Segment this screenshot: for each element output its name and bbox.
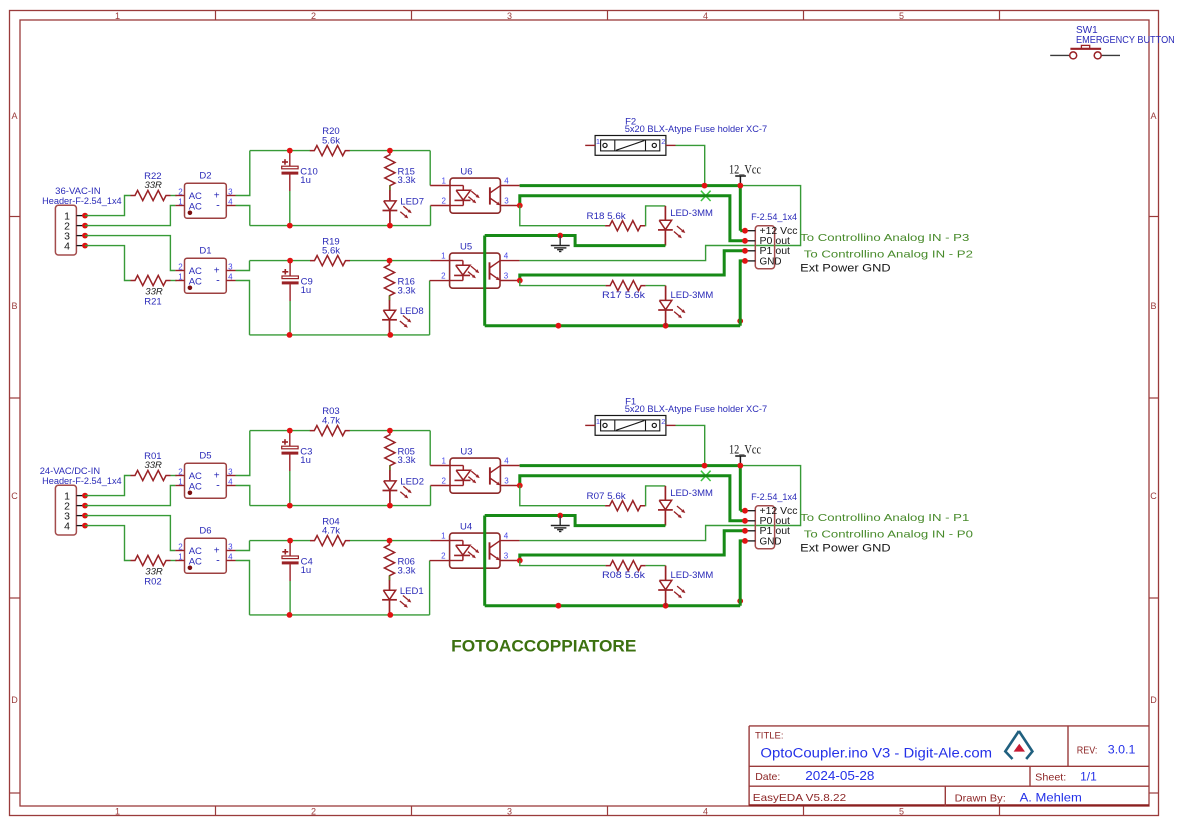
svg-text:GND: GND — [760, 536, 782, 547]
svg-text:3.3k: 3.3k — [398, 175, 416, 186]
svg-text:R07 5.6k: R07 5.6k — [587, 491, 626, 502]
svg-text:EasyEDA V5.8.22: EasyEDA V5.8.22 — [753, 792, 846, 804]
svg-text:LED8: LED8 — [400, 306, 424, 317]
svg-text:LED-3MM: LED-3MM — [671, 570, 714, 581]
svg-text:4.7k: 4.7k — [322, 415, 340, 426]
svg-text:FOTOACCOPPIATORE: FOTOACCOPPIATORE — [451, 636, 636, 655]
svg-text:AC: AC — [189, 266, 202, 277]
svg-text:3.3k: 3.3k — [398, 285, 416, 296]
svg-text:2024-05-28: 2024-05-28 — [805, 769, 874, 783]
svg-text:1: 1 — [442, 457, 447, 466]
svg-text:1: 1 — [178, 552, 183, 561]
svg-text:U4: U4 — [460, 522, 472, 533]
svg-text:5x20 BLX-Atype Fuse holder XC-: 5x20 BLX-Atype Fuse holder XC-7 — [625, 124, 768, 135]
svg-text:3: 3 — [228, 262, 233, 271]
svg-text:A: A — [11, 111, 17, 121]
svg-text:D2: D2 — [199, 171, 211, 182]
svg-text:LED1: LED1 — [400, 586, 424, 597]
svg-text:REV:: REV: — [1077, 744, 1098, 756]
svg-text:4: 4 — [64, 520, 70, 532]
svg-text:U5: U5 — [460, 242, 472, 253]
svg-text:3: 3 — [228, 542, 233, 551]
svg-text:-: - — [216, 480, 220, 492]
svg-text:2: 2 — [661, 137, 665, 146]
svg-text:5.6k: 5.6k — [322, 246, 340, 257]
svg-text:Header-F-2.54_1x4: Header-F-2.54_1x4 — [42, 476, 122, 486]
svg-text:D1: D1 — [199, 246, 211, 257]
svg-text:B: B — [1150, 301, 1156, 311]
svg-text:4.7k: 4.7k — [322, 526, 340, 537]
svg-text:1: 1 — [596, 417, 600, 426]
svg-text:-: - — [216, 275, 220, 287]
svg-text:4: 4 — [504, 177, 509, 186]
svg-text:Ext Power GND: Ext Power GND — [800, 543, 891, 555]
svg-text:1: 1 — [178, 477, 183, 486]
svg-text:D5: D5 — [199, 451, 211, 462]
svg-text:3: 3 — [507, 11, 512, 21]
svg-text:12_Vcc: 12_Vcc — [729, 163, 761, 177]
svg-text:1u: 1u — [301, 285, 312, 296]
svg-text:4: 4 — [228, 552, 233, 561]
svg-text:U6: U6 — [460, 167, 472, 178]
svg-text:LED-3MM: LED-3MM — [670, 208, 713, 219]
svg-text:1: 1 — [441, 532, 446, 541]
svg-text:AC: AC — [189, 471, 202, 482]
svg-text:2: 2 — [441, 552, 446, 561]
svg-text:1u: 1u — [300, 455, 311, 466]
svg-text:2: 2 — [442, 197, 447, 206]
svg-text:3.3k: 3.3k — [398, 455, 416, 466]
svg-text:4: 4 — [228, 197, 233, 206]
svg-text:LED-3MM: LED-3MM — [670, 488, 713, 499]
svg-text:LED7: LED7 — [400, 196, 424, 207]
svg-text:To Controllino Analog IN - P0: To Controllino Analog IN - P0 — [804, 529, 973, 541]
svg-text:24-VAC/DC-IN: 24-VAC/DC-IN — [40, 466, 100, 476]
svg-text:Sheet:: Sheet: — [1035, 771, 1066, 783]
svg-text:1: 1 — [178, 272, 183, 281]
svg-text:1u: 1u — [300, 175, 311, 186]
svg-text:3.3k: 3.3k — [398, 565, 416, 576]
svg-text:C: C — [11, 491, 18, 501]
svg-text:4: 4 — [228, 272, 233, 281]
svg-text:3: 3 — [507, 806, 512, 816]
svg-text:To Controllino Analog IN - P1: To Controllino Analog IN - P1 — [800, 512, 969, 524]
svg-text:-: - — [216, 555, 220, 567]
svg-text:2: 2 — [441, 272, 446, 281]
svg-text:OptoCoupler.ino V3 - Digit-Ale: OptoCoupler.ino V3 - Digit-Ale.com — [760, 745, 992, 760]
svg-text:C: C — [1150, 491, 1157, 501]
svg-text:To Controllino Analog IN - P2: To Controllino Analog IN - P2 — [804, 249, 973, 261]
svg-text:2: 2 — [178, 467, 183, 476]
svg-text:33R: 33R — [144, 180, 162, 191]
svg-text:Header-F-2.54_1x4: Header-F-2.54_1x4 — [42, 196, 122, 206]
svg-text:4: 4 — [703, 806, 708, 816]
svg-text:Ext Power GND: Ext Power GND — [800, 263, 891, 275]
svg-text:2: 2 — [442, 477, 447, 486]
svg-text:1: 1 — [115, 806, 120, 816]
svg-text:5: 5 — [899, 806, 904, 816]
svg-text:3: 3 — [504, 197, 509, 206]
svg-text:R02: R02 — [144, 577, 161, 588]
svg-text:12_Vcc: 12_Vcc — [729, 443, 761, 457]
svg-text:AC: AC — [189, 191, 202, 202]
svg-text:1: 1 — [441, 252, 446, 261]
svg-text:5x20 BLX-Atype Fuse holder XC-: 5x20 BLX-Atype Fuse holder XC-7 — [625, 404, 768, 415]
svg-text:AC: AC — [189, 546, 202, 557]
svg-text:1: 1 — [178, 197, 183, 206]
svg-text:D: D — [1150, 695, 1157, 705]
svg-text:2: 2 — [311, 806, 316, 816]
svg-text:-: - — [216, 200, 220, 212]
svg-text:R21: R21 — [144, 297, 161, 308]
svg-text:2: 2 — [661, 417, 665, 426]
svg-text:4: 4 — [228, 477, 233, 486]
svg-text:R17 5.6k: R17 5.6k — [602, 290, 645, 301]
svg-text:1: 1 — [596, 137, 600, 146]
svg-text:B: B — [11, 301, 17, 311]
svg-text:4: 4 — [703, 11, 708, 21]
svg-text:D: D — [11, 695, 18, 705]
svg-text:3: 3 — [228, 467, 233, 476]
svg-text:D6: D6 — [199, 526, 211, 537]
svg-text:3: 3 — [504, 272, 509, 281]
svg-text:1: 1 — [442, 177, 447, 186]
svg-text:4: 4 — [504, 457, 509, 466]
svg-text:2: 2 — [178, 262, 183, 271]
svg-text:A: A — [1150, 111, 1156, 121]
svg-text:2: 2 — [178, 542, 183, 551]
svg-text:F-2.54_1x4: F-2.54_1x4 — [751, 492, 797, 503]
svg-text:R18 5.6k: R18 5.6k — [587, 211, 626, 222]
svg-text:1u: 1u — [301, 565, 312, 576]
svg-text:F-2.54_1x4: F-2.54_1x4 — [751, 212, 797, 223]
svg-text:2: 2 — [178, 187, 183, 196]
svg-text:LED-3MM: LED-3MM — [671, 290, 714, 301]
svg-text:EMERGENCY BUTTON: EMERGENCY BUTTON — [1076, 35, 1175, 46]
svg-text:36-VAC-IN: 36-VAC-IN — [55, 186, 100, 196]
svg-text:5: 5 — [899, 11, 904, 21]
svg-text:LED2: LED2 — [400, 476, 424, 487]
svg-text:33R: 33R — [144, 460, 162, 471]
svg-text:A. Mehlem: A. Mehlem — [1020, 790, 1082, 804]
svg-text:4: 4 — [504, 532, 509, 541]
svg-text:3.0.1: 3.0.1 — [1108, 743, 1136, 757]
svg-text:3: 3 — [504, 477, 509, 486]
svg-text:To Controllino Analog IN - P3: To Controllino Analog IN - P3 — [800, 232, 969, 244]
svg-text:Drawn By:: Drawn By: — [955, 792, 1006, 804]
svg-text:1: 1 — [115, 11, 120, 21]
svg-text:3: 3 — [504, 552, 509, 561]
svg-text:3: 3 — [228, 187, 233, 196]
svg-text:5.6k: 5.6k — [322, 135, 340, 146]
svg-text:2: 2 — [311, 11, 316, 21]
svg-text:TITLE:: TITLE: — [755, 730, 784, 741]
svg-text:Date:: Date: — [755, 771, 780, 783]
svg-text:4: 4 — [64, 240, 70, 252]
svg-text:GND: GND — [760, 256, 782, 267]
svg-text:U3: U3 — [460, 447, 472, 458]
svg-text:4: 4 — [504, 252, 509, 261]
svg-text:R08 5.6k: R08 5.6k — [602, 570, 645, 581]
svg-text:1/1: 1/1 — [1080, 769, 1097, 783]
